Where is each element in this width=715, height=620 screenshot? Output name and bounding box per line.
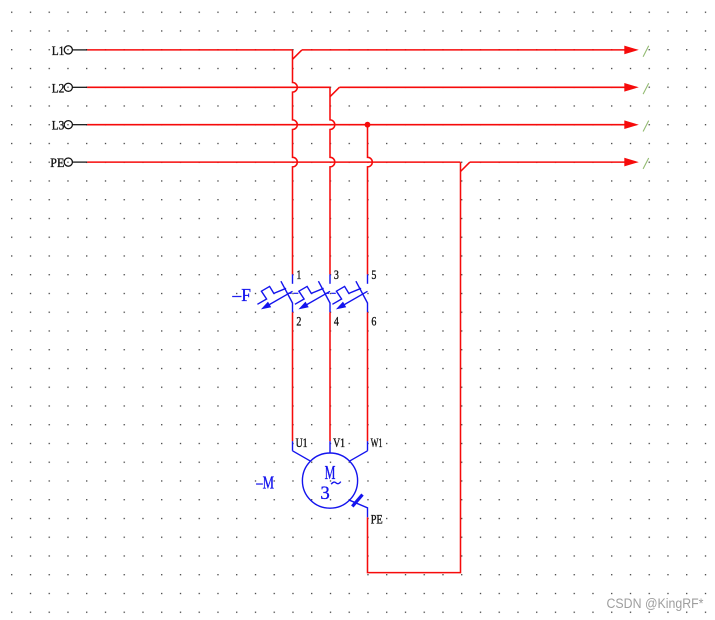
breaker -F pole 1 top pin 1 <box>292 274 294 283</box>
interruption-point slash L2 <box>643 83 649 94</box>
node L2 label <box>52 80 65 95</box>
svg-text:L3: L3 <box>52 118 65 133</box>
node PE label at motor <box>371 511 383 526</box>
breaker -F pole 3 pin number 6 <box>371 313 376 328</box>
wire L1 branch jog <box>293 50 302 59</box>
breaker -F pole 2 release arrow <box>298 291 330 309</box>
breaker -F pole 2 top pin 3 <box>329 274 331 283</box>
breaker -F pole 1 pin number 1 <box>296 267 301 282</box>
motor -M pin U1 <box>293 441 311 461</box>
motor -M PE pin wire <box>350 500 368 517</box>
svg-text:–M: –M <box>255 473 274 493</box>
breaker -F pole 2 pin number 3 <box>334 267 339 282</box>
wire breaker pin 6 to motor W1 <box>367 312 369 441</box>
wire L1 drop to breaker pin 1 <box>293 50 298 275</box>
motor -M pin V1 <box>329 441 331 453</box>
circuit breaker F device tag <box>232 285 251 305</box>
svg-text:U1: U1 <box>296 435 308 450</box>
breaker -F pole 2 thermal overload element <box>295 286 324 304</box>
wire L2 rail right segment <box>339 86 625 88</box>
svg-text:CSDN @KingRF*: CSDN @KingRF* <box>607 596 705 611</box>
svg-text:3: 3 <box>320 483 329 504</box>
breaker -F pole 3 pin number 5 <box>371 267 376 282</box>
svg-text:L2: L2 <box>52 80 65 95</box>
motor -M body circle <box>302 453 357 508</box>
svg-text:L1: L1 <box>52 43 65 58</box>
wire L3 rail <box>87 124 625 126</box>
svg-text:2: 2 <box>296 313 301 328</box>
interruption-point slash L1 <box>643 46 649 57</box>
breaker -F pole 1 release arrow <box>261 291 293 309</box>
breaker -F pole 2 bottom pin 4 <box>329 303 331 313</box>
source arrow L3 <box>624 120 639 129</box>
wire L2 drop to breaker pin 3 <box>330 87 335 274</box>
motor -M letter M <box>325 462 336 484</box>
svg-text:4: 4 <box>334 313 339 328</box>
terminal L1 <box>64 46 87 54</box>
svg-text:M: M <box>325 462 336 484</box>
terminal PE <box>64 158 87 166</box>
motor -M pin label W1 <box>371 435 383 450</box>
breaker -F pole 1 thermal overload element <box>257 286 286 304</box>
breaker -F pole 3 release arrow <box>336 291 368 309</box>
breaker -F pole 3 thermal overload element <box>332 286 361 304</box>
breaker -F pole 3 contact blade <box>356 281 368 303</box>
svg-text:–F: –F <box>232 285 251 305</box>
svg-text:W1: W1 <box>371 435 383 450</box>
breaker -F pole 2 linkage dashes <box>325 292 335 294</box>
interruption-point slash L3 <box>643 121 649 132</box>
node L1 label <box>52 43 65 58</box>
breaker -F pole 2 contact blade <box>318 281 330 303</box>
motor -M numeral 3 <box>320 483 329 504</box>
svg-text:V1: V1 <box>333 435 345 450</box>
wire L1 rail right segment <box>302 49 625 51</box>
svg-text:3: 3 <box>334 267 339 282</box>
watermark CSDN @KingRF* <box>607 596 705 611</box>
breaker -F pole 1 contact blade <box>281 281 293 303</box>
breaker -F pole 2 pin number 4 <box>334 313 339 328</box>
svg-text:1: 1 <box>296 267 301 282</box>
terminal L2 <box>64 83 87 91</box>
wire PE run to motor <box>368 162 461 572</box>
svg-text:6: 6 <box>371 313 376 328</box>
wire L2 rail left segment <box>87 86 330 88</box>
wire PE rail right segment <box>470 161 625 163</box>
wire PE rail left segment <box>87 161 460 163</box>
svg-text:5: 5 <box>371 267 376 282</box>
wire breaker pin 2 to motor U1 <box>292 312 294 441</box>
breaker -F pole 1 bottom pin 2 <box>292 303 294 313</box>
wire breaker pin 4 to motor V1 <box>329 312 331 441</box>
breaker -F pole 1 linkage dashes <box>288 292 298 294</box>
motor -M PE tick <box>352 495 362 507</box>
breaker -F pole 3 bottom pin 6 <box>367 303 369 313</box>
node L3 label <box>52 118 65 133</box>
source arrow L2 <box>624 83 639 92</box>
node PE label <box>50 155 64 170</box>
source arrow PE <box>624 158 639 167</box>
svg-text:PE: PE <box>50 155 64 170</box>
junction dot node L3 <box>365 122 371 128</box>
motor M device tag <box>255 473 274 493</box>
wire PE branch jog <box>461 162 470 171</box>
motor -M tilde <box>331 482 341 485</box>
wire L1 rail left segment <box>87 49 292 51</box>
terminal L3 <box>64 121 87 129</box>
interruption-point slash PE <box>643 158 649 169</box>
motor -M pin W1 <box>349 441 367 461</box>
motor -M pin label U1 <box>296 435 308 450</box>
breaker -F pole 1 pin number 2 <box>296 313 301 328</box>
wire L2 branch jog <box>330 87 339 96</box>
motor -M pin label V1 <box>333 435 345 450</box>
source arrow L1 <box>624 46 639 55</box>
svg-text:PE: PE <box>371 511 383 526</box>
wire L3 drop to breaker pin 5 <box>368 125 373 275</box>
breaker -F pole 3 top pin 5 <box>367 274 369 283</box>
